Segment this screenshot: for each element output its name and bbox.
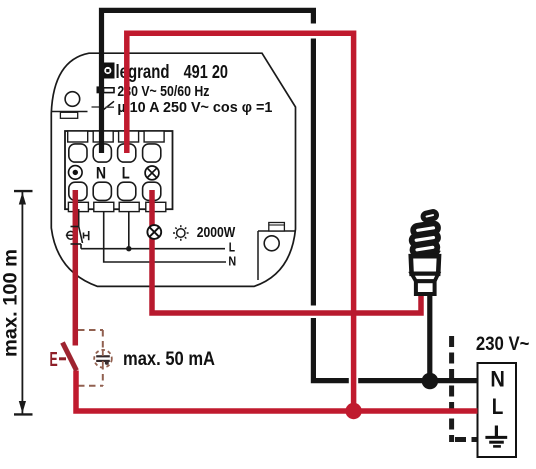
- svg-text:491 20: 491 20: [184, 62, 228, 82]
- lamp LA1 CFL spiral tube: [411, 211, 439, 257]
- svg-text:2000W: 2000W: [197, 225, 236, 241]
- wire black N to mains right part: [358, 378, 477, 383]
- dash after E: [59, 357, 66, 360]
- legrand logo mark: [101, 63, 115, 79]
- wire black N terminal to top route: [102, 10, 314, 153]
- dashed box optional illuminated push-button: [78, 330, 103, 386]
- terminal holes bottom row pins 5-8: [69, 182, 161, 200]
- terminal symbol lamp circle-x: [145, 166, 159, 180]
- icon brightness rays: [173, 225, 189, 241]
- dimension arrowhead bottom: [19, 401, 26, 413]
- svg-text:230 V~ 50/60 Hz: 230 V~ 50/60 Hz: [117, 83, 209, 100]
- wire black N to mains left part: [313, 318, 348, 381]
- junction node black N: [422, 373, 439, 390]
- svg-text:N: N: [228, 254, 236, 268]
- device outline U1 Legrand 491 20: [51, 53, 295, 286]
- junction node red L: [345, 403, 361, 419]
- wire internal push-button drop: [78, 209, 80, 227]
- wire red push-button return bottom: [76, 371, 478, 412]
- wire lamp black lead: [427, 292, 432, 381]
- svg-text:max. 50 mA: max. 50 mA: [123, 348, 215, 370]
- svg-text:legrand: legrand: [116, 62, 170, 83]
- internal push-button S1 contact: [71, 227, 89, 245]
- svg-text:E: E: [50, 349, 58, 371]
- lamp circle-x symbol on wire: [147, 225, 161, 239]
- dashed mains earth line: [452, 336, 477, 442]
- wire black N vertical drop right: [311, 39, 316, 306]
- screw head symbol: [66, 231, 76, 239]
- svg-text:L: L: [492, 394, 504, 419]
- dimension arrowhead top: [19, 192, 26, 204]
- push-button E lever: [63, 343, 77, 371]
- mounting ear top-left: [52, 92, 88, 119]
- terminal symbol push-button circle-dot: [69, 166, 83, 180]
- svg-text:230 V~: 230 V~: [476, 333, 530, 355]
- wire red L feed terminal to mains: [127, 33, 354, 411]
- wire internal L line: [81, 244, 225, 249]
- wire red switched line to lamp: [152, 190, 421, 313]
- wire red to push-button E: [73, 190, 79, 346]
- glow lamp symbol: [94, 350, 112, 368]
- wire internal N line: [104, 211, 226, 262]
- junction internal L: [126, 246, 131, 251]
- svg-text:N: N: [96, 164, 106, 183]
- icon supply plug: [97, 86, 115, 93]
- lamp LA1 base: [411, 256, 439, 294]
- terminal block top notches: [68, 131, 164, 142]
- svg-text:µ 10 A 250 V~ cos φ =1: µ 10 A 250 V~ cos φ =1: [117, 99, 272, 116]
- dimension line max. 100 m: [14, 191, 33, 414]
- terminal block bottom notches: [68, 202, 165, 211]
- ground: [485, 426, 507, 447]
- mains supply box: [478, 363, 517, 457]
- svg-text:L: L: [122, 164, 130, 183]
- mounting ear bottom-right: [258, 223, 295, 281]
- terminal holes top row pins 1-4: [69, 144, 161, 162]
- svg-text:max. 100 m: max. 100 m: [1, 249, 22, 357]
- terminal block TB1 body: [65, 131, 173, 209]
- wire internal L terminal drop: [128, 211, 130, 249]
- icon contact rating: [92, 101, 115, 110]
- svg-text:L: L: [229, 240, 236, 254]
- svg-text:N: N: [490, 366, 505, 391]
